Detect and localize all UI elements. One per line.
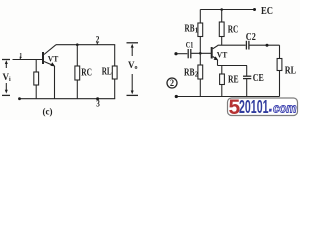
svg-text:CE: CE	[253, 73, 264, 84]
wire top rail (right)	[200, 9, 255, 11]
junction at base/RB1/RB2	[199, 52, 202, 55]
source Vo down arrow	[131, 74, 134, 94]
svg-text:3: 3	[96, 99, 100, 109]
resistor RB1	[185, 10, 203, 54]
wire bottom rail (left)	[19, 98, 115, 100]
svg-text:com: com	[273, 102, 297, 116]
watermark 520101.com	[228, 96, 298, 119]
svg-text:VT: VT	[217, 49, 228, 59]
resistor RC (right)	[219, 10, 238, 46]
junction output node	[266, 44, 269, 47]
wire emitter vertical (right)	[217, 60, 219, 66]
svg-text:20101: 20101	[239, 97, 269, 117]
svg-text:C1: C1	[186, 40, 194, 49]
power EC terminal dot	[253, 8, 256, 11]
wire emitter vertical (left)	[54, 66, 56, 99]
svg-text:RL: RL	[102, 67, 112, 78]
label circled 2	[167, 78, 177, 88]
wire Vi bottom terminal bar	[2, 94, 10, 96]
terminal dot bottom (right)	[175, 95, 178, 98]
svg-text:RB: RB	[185, 24, 195, 35]
wire collector node to C2	[218, 44, 246, 46]
source Vi up arrow	[5, 60, 8, 68]
capacitor C1	[186, 40, 194, 58]
resistor RC (left)	[75, 45, 92, 99]
capacitor C2	[246, 32, 256, 50]
wire base (right)	[191, 52, 211, 54]
svg-text:(c): (c)	[43, 107, 53, 117]
svg-text:RB: RB	[184, 67, 195, 78]
resistor RE	[220, 66, 239, 97]
wire top rail (left)	[56, 44, 115, 46]
wire emitter rail (right)	[218, 65, 248, 67]
resistor RB2	[184, 53, 203, 96]
wire base input (left circuit)	[13, 59, 43, 61]
svg-text:VT: VT	[48, 55, 59, 64]
svg-text:RL: RL	[285, 66, 297, 77]
svg-text:2: 2	[195, 71, 199, 79]
capacitor CE	[243, 66, 264, 97]
wire bottom rail (right)	[177, 96, 280, 98]
svg-text:1: 1	[19, 51, 22, 60]
svg-text:EC: EC	[261, 6, 273, 17]
junction at RC top (right)	[220, 8, 223, 11]
wire Vi top terminal bar	[2, 59, 10, 61]
node 3	[96, 97, 100, 108]
node 2	[96, 35, 100, 45]
svg-text:RC: RC	[228, 25, 239, 36]
source Vo up arrow	[131, 44, 134, 56]
wire Vo bottom terminal bar	[127, 94, 139, 96]
svg-text:2: 2	[96, 35, 100, 45]
terminal dot bottom-left	[18, 97, 21, 100]
svg-text:RC: RC	[81, 68, 92, 79]
resistor input (unlabeled)	[34, 60, 39, 99]
wire input to C1	[177, 53, 187, 55]
transistor VT (right)	[212, 45, 228, 60]
svg-text:1: 1	[195, 27, 199, 35]
svg-text:2: 2	[170, 78, 175, 88]
transistor VT (left)	[43, 45, 59, 67]
node 1	[19, 51, 22, 60]
wire C2 to RL corner	[249, 44, 279, 46]
junction at RC top (left)	[76, 43, 79, 46]
resistor RL (left)	[102, 45, 117, 99]
source Vi down arrow	[5, 83, 8, 94]
svg-text:RE: RE	[228, 75, 239, 86]
svg-text:C2: C2	[246, 32, 256, 43]
input terminal dot (right)	[174, 52, 177, 55]
resistor RL (right)	[277, 45, 296, 96]
source Vo top terminal bar	[127, 42, 139, 44]
